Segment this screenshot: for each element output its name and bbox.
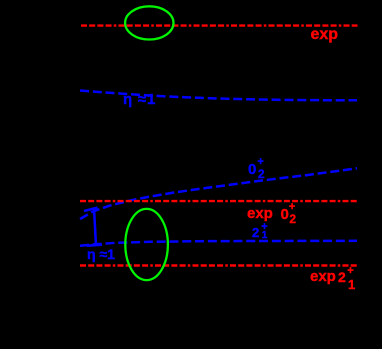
eta=1 marker bracket vertical bar	[94, 209, 96, 245]
label: 0_2+ (blue)	[248, 162, 256, 177]
exp level line (top red dashed)	[81, 24, 358, 26]
green highlight ellipse (bottom)	[125, 209, 168, 280]
label: exp 0_2+ (red)	[247, 206, 273, 221]
label: exp (top right, red)	[311, 27, 339, 43]
label: 2_1+ (blue)	[252, 226, 259, 239]
upper theory curve (blue dashed, eta~1)	[80, 91, 357, 101]
2_1+ theory curve (blue dashed)	[80, 241, 357, 246]
label: eta~1 (upper blue)	[123, 92, 156, 107]
label: eta~1 (lower blue)	[87, 247, 115, 261]
exp 2_1+ level line (bottom red dashed)	[80, 264, 358, 266]
eta=1 marker bracket top tick	[84, 208, 98, 211]
label: exp 2_1+ (bottom right, red)	[310, 269, 336, 284]
exp 0_2+ level line (middle red dashed)	[80, 200, 358, 202]
green highlight ellipse (top)	[125, 6, 173, 39]
0_2+ theory curve (blue dashed rising)	[80, 168, 357, 219]
eta=1 marker bracket bottom tick	[87, 245, 102, 246]
